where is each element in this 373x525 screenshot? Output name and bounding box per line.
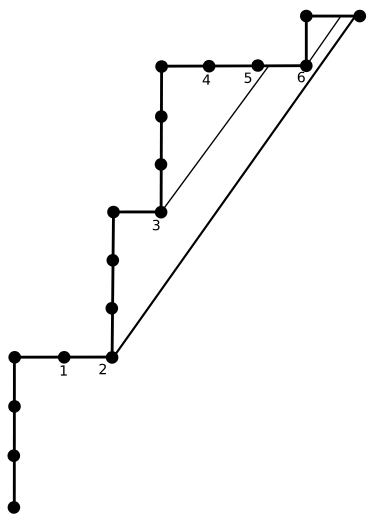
lattice node at bottom end of path bbox=[8, 501, 21, 514]
lattice node bbox=[106, 302, 119, 315]
path horizontal segment through nodes 1 and 2 bbox=[14, 356, 112, 359]
lattice node at corner above 6 bbox=[300, 10, 313, 23]
chord from node 6 up to the top step edge bbox=[306, 16, 341, 66]
lattice node bbox=[107, 254, 120, 267]
lattice node 6 bbox=[300, 60, 313, 73]
lattice node at corner bbox=[107, 206, 120, 219]
lattice node bbox=[8, 400, 21, 413]
label 2 bbox=[99, 364, 106, 374]
label 5 bbox=[245, 73, 252, 83]
lattice node 2 bbox=[106, 351, 119, 364]
lattice node 4 bbox=[203, 60, 216, 73]
lattice node 5 bbox=[251, 59, 264, 72]
path vertical segment from node 3 up to third corner bbox=[160, 66, 163, 212]
label 6 bbox=[298, 72, 305, 83]
path vertical segment from node 6 up to top corner bbox=[305, 16, 308, 66]
lattice node at corner bbox=[8, 351, 21, 364]
lattice node 3 bbox=[155, 206, 168, 219]
label 4 bbox=[203, 75, 211, 85]
path vertical segment from node 2 up to second corner bbox=[112, 212, 113, 357]
lattice node bbox=[155, 110, 168, 123]
lattice node at top-right end of path bbox=[354, 10, 367, 23]
label 3 bbox=[153, 220, 160, 231]
path horizontal segment through nodes 4, 5 and 6 bbox=[162, 64, 307, 67]
lattice node at corner bbox=[155, 60, 168, 73]
lattice node bbox=[8, 449, 21, 462]
lattice node bbox=[155, 158, 168, 171]
label 1 bbox=[61, 365, 67, 375]
path horizontal segment to top-right node bbox=[306, 15, 360, 18]
lattice node 1 bbox=[58, 351, 71, 364]
chord from node 3 up to the step edge between nodes 5 and 6 bbox=[161, 65, 269, 212]
path horizontal segment into node 3 bbox=[114, 210, 162, 213]
path vertical segment from bottom node up to first corner bbox=[13, 357, 16, 507]
chord from node 2 up to the top-right node bbox=[113, 16, 355, 357]
